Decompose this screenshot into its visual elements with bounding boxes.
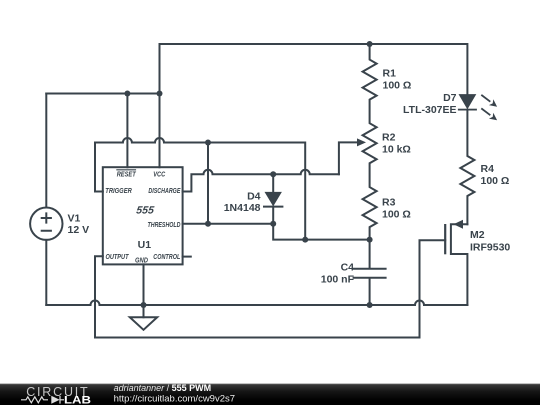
svg-text:http://circuitlab.com/cw9v2s7: http://circuitlab.com/cw9v2s7 xyxy=(114,394,235,405)
svg-text:100 Ω: 100 Ω xyxy=(481,175,510,187)
svg-text:100 nF: 100 nF xyxy=(321,274,355,286)
svg-text:12 V: 12 V xyxy=(68,224,90,236)
svg-text:555: 555 xyxy=(136,204,155,216)
svg-text:D4: D4 xyxy=(247,191,261,203)
svg-text:M2: M2 xyxy=(470,229,485,241)
svg-text:C4: C4 xyxy=(341,262,355,274)
svg-text:U1: U1 xyxy=(138,239,152,251)
svg-text:100 Ω: 100 Ω xyxy=(383,79,412,91)
svg-text:DISCHARGE: DISCHARGE xyxy=(148,186,181,195)
svg-text:1N4148: 1N4148 xyxy=(224,202,261,214)
svg-text:RESET: RESET xyxy=(117,169,137,178)
svg-text:LAB: LAB xyxy=(64,394,91,405)
svg-text:V1: V1 xyxy=(68,212,81,224)
svg-text:THRESHOLD: THRESHOLD xyxy=(148,220,181,229)
svg-text:GND: GND xyxy=(135,258,148,265)
svg-text:adriantanner / 555 PWM: adriantanner / 555 PWM xyxy=(114,383,212,393)
svg-text:R4: R4 xyxy=(481,163,495,175)
svg-text:TRIGGER: TRIGGER xyxy=(105,186,132,195)
svg-text:D7: D7 xyxy=(443,92,457,104)
svg-text:IRF9530: IRF9530 xyxy=(470,241,510,253)
svg-text:LTL-307EE: LTL-307EE xyxy=(403,104,456,116)
svg-text:100 Ω: 100 Ω xyxy=(382,209,411,221)
svg-text:OUTPUT: OUTPUT xyxy=(106,252,130,261)
svg-text:R1: R1 xyxy=(383,67,397,79)
svg-text:R3: R3 xyxy=(382,197,396,209)
svg-text:10 kΩ: 10 kΩ xyxy=(382,144,411,156)
svg-text:R2: R2 xyxy=(382,132,396,144)
svg-text:CONTROL: CONTROL xyxy=(153,252,180,261)
svg-text:VCC: VCC xyxy=(153,169,165,178)
